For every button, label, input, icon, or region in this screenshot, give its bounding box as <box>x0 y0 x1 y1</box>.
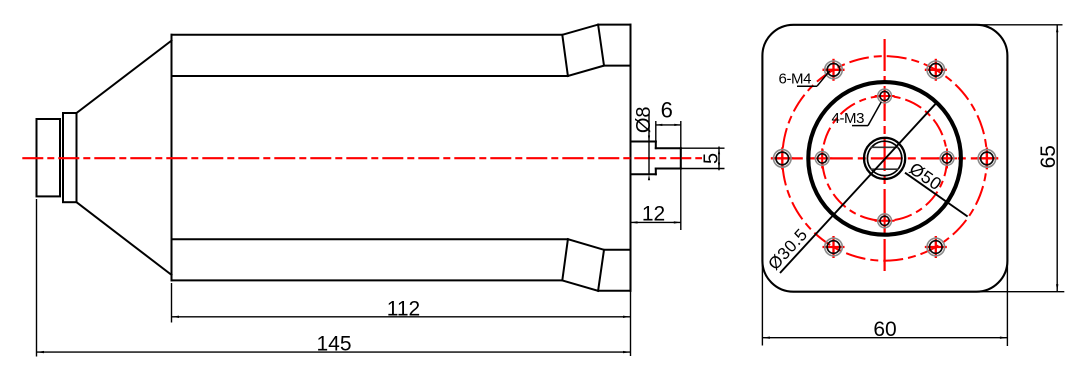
arrows left view <box>37 124 721 353</box>
cone top edge <box>77 41 172 113</box>
tip second rectangle <box>63 113 77 202</box>
dimension line 12 <box>631 221 681 223</box>
center hole top chord <box>871 146 899 148</box>
shaft Ø5 top edge <box>656 147 681 149</box>
center hole bottom chord <box>871 168 899 170</box>
M3 hole right <box>937 148 957 168</box>
label 6-M4 underline <box>797 85 817 87</box>
shaft end face <box>680 148 682 168</box>
extension line 145 left <box>36 199 38 357</box>
extension line shaft end <box>680 121 682 230</box>
body right edge <box>630 25 632 291</box>
flange plate rounded square <box>762 25 1007 292</box>
svg-text:6: 6 <box>661 98 673 123</box>
body right edge extension line <box>630 291 632 356</box>
boss circle thick <box>808 82 961 235</box>
arrow 65 bottom <box>1056 284 1058 292</box>
M4 hole 180deg <box>771 147 793 169</box>
shaft step face bottom <box>655 169 657 175</box>
arrow 145 right <box>623 351 631 353</box>
svg-text:60: 60 <box>873 318 896 341</box>
body inner top line <box>172 75 568 77</box>
arrow 6 right <box>674 124 681 126</box>
dimension line 6 <box>656 124 681 126</box>
arrow 112 left <box>172 316 180 318</box>
M4 hole 60deg <box>925 59 947 81</box>
dimension line 145 <box>37 351 631 353</box>
body top edge <box>172 34 563 36</box>
top slanted band <box>562 25 604 76</box>
label 4-M3 leader <box>868 102 881 126</box>
shaft step Ø8 bottom edge <box>631 173 656 175</box>
bottom corner inner line <box>604 249 631 251</box>
arrow d8 top <box>648 136 650 142</box>
arrow 60 left <box>762 337 770 339</box>
dimension line 60 <box>762 337 1007 339</box>
M4 hole 300deg <box>925 236 947 258</box>
red center cross horizontal <box>771 157 999 159</box>
arrow 65 top <box>1056 25 1058 33</box>
body bottom edge <box>172 279 563 281</box>
top corner edge <box>598 24 630 26</box>
M3 hole bottom <box>875 211 895 231</box>
arrow 12 left <box>631 221 638 223</box>
bottom slanted band <box>562 239 604 291</box>
svg-text:12: 12 <box>642 203 665 226</box>
arrow 145 left <box>37 351 45 353</box>
M4 hole 120deg <box>823 59 845 81</box>
body left edge <box>171 35 173 281</box>
M4 hole 240deg <box>823 236 845 258</box>
arrow 112 right <box>623 316 631 318</box>
extension line 60 left <box>761 260 763 346</box>
shaft step face top <box>655 142 657 149</box>
leader line diameter 50 <box>905 173 968 217</box>
bolt circle diameter 30.5 <box>822 96 947 221</box>
svg-text:4-M3: 4-M3 <box>832 110 865 127</box>
M3 hole left <box>812 148 832 168</box>
extension line 5 bottom <box>681 168 725 170</box>
arrow 6 left <box>656 124 663 126</box>
svg-text:65: 65 <box>1037 145 1060 168</box>
bolt circle diameter 50 <box>782 56 987 261</box>
center hole inner circle <box>867 141 901 175</box>
top corner inner line <box>604 65 631 67</box>
tip outer rectangle <box>37 119 61 196</box>
extension overlap lines at corners <box>762 25 1064 346</box>
svg-text:145: 145 <box>316 333 351 356</box>
dimension line 5 <box>718 147 720 171</box>
arrow 60 right <box>1000 337 1008 339</box>
label 4-M3 underline <box>852 125 868 127</box>
red center cross vertical <box>883 39 885 275</box>
extension line 60 right <box>1006 260 1008 346</box>
svg-text:6-M4: 6-M4 <box>779 71 812 88</box>
dimension line 65 <box>1056 25 1058 292</box>
extension line 65 top <box>976 24 1063 26</box>
svg-text:5: 5 <box>700 153 722 164</box>
extension line 65 bottom <box>974 291 1064 293</box>
arrow d8 bottom <box>648 174 650 180</box>
dimension line 112 <box>172 316 631 318</box>
svg-text:Ø8: Ø8 <box>633 106 655 133</box>
arrow 5 bottom <box>718 163 720 169</box>
svg-text:112: 112 <box>387 297 420 320</box>
M4 hole 0deg <box>976 147 998 169</box>
diagonal dimension line diameter 30.5 <box>780 104 936 273</box>
shaft step Ø8 top edge <box>631 141 656 143</box>
centerline left view <box>22 157 702 159</box>
cone bottom edge <box>77 202 172 275</box>
extension line 6 left <box>655 121 657 142</box>
arrow 5 top <box>718 148 720 154</box>
bottom corner edge <box>598 290 630 292</box>
center hole outer circle <box>864 138 905 179</box>
M3 hole top <box>875 86 895 106</box>
extension line 112 left <box>171 283 173 323</box>
extension line 5 top <box>681 147 725 149</box>
shaft Ø5 bottom edge <box>656 168 681 170</box>
arrow 12 right <box>674 221 681 223</box>
label 6-M4 leader <box>817 71 830 86</box>
dimension line diameter 8 <box>648 114 650 174</box>
body inner bottom line <box>172 238 568 240</box>
